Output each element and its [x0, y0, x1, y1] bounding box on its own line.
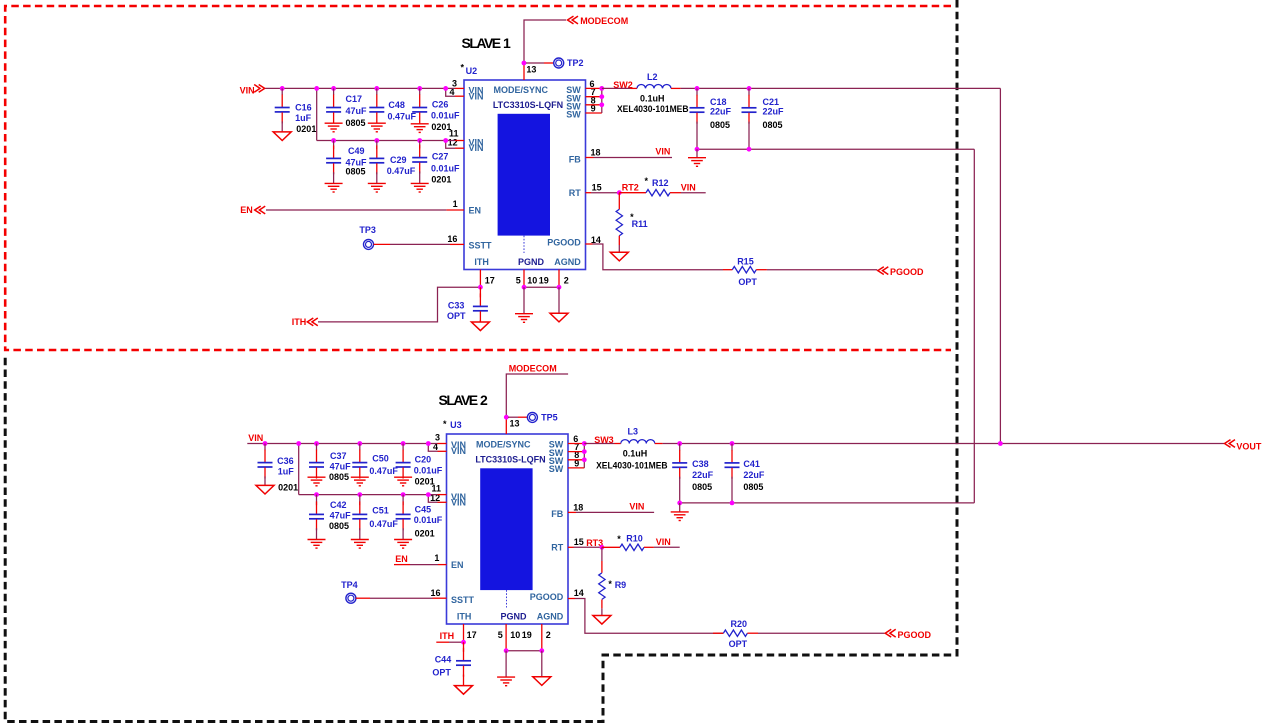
svg-text:MODE/SYNC: MODE/SYNC	[494, 85, 549, 95]
wire TP4 to U3 pin 16	[356, 597, 433, 599]
wire MODECOM (slave1)	[524, 20, 566, 63]
svg-text:TP5: TP5	[541, 413, 558, 423]
U2 pin 6 stub	[586, 87, 602, 89]
test point TP2	[554, 58, 584, 68]
svg-text:22uF: 22uF	[743, 470, 765, 480]
net label PGOOD (slave2)	[885, 629, 931, 640]
U3 pin 6 stub	[568, 443, 584, 445]
capacitor C49	[326, 141, 341, 184]
svg-text:R10: R10	[626, 533, 643, 543]
U3 pin 13 stub	[505, 417, 507, 434]
wire PGOOD (slave2)	[575, 599, 723, 634]
svg-text:C49: C49	[348, 146, 365, 156]
U3 pin 9 stub	[568, 467, 584, 469]
svg-text:2: 2	[564, 276, 569, 286]
svg-text:VIN: VIN	[469, 92, 484, 102]
svg-text:OPT: OPT	[729, 639, 748, 649]
svg-text:5: 5	[498, 630, 503, 640]
wire RT2 to R12	[619, 192, 646, 194]
label C16	[295, 102, 316, 134]
U2 pin 12 stub	[446, 141, 464, 149]
U2 pin 9 stub	[586, 112, 602, 114]
svg-text:0805: 0805	[743, 482, 763, 492]
net label PGOOD (slave1)	[878, 267, 924, 278]
ground R11 (triangle)	[610, 252, 628, 261]
capacitor C41	[725, 444, 740, 503]
svg-text:0805: 0805	[329, 521, 349, 531]
U3 pin 18 stub	[568, 511, 576, 513]
ground C27 (bars)	[411, 183, 429, 192]
svg-text:SW: SW	[566, 110, 581, 120]
net label ITH (slave2)	[440, 631, 455, 641]
resistor R12	[646, 190, 681, 196]
svg-text:16: 16	[431, 588, 441, 598]
svg-text:16: 16	[447, 234, 457, 244]
node C38 bottom junction	[677, 501, 682, 506]
svg-text:VIN: VIN	[451, 446, 466, 456]
svg-text:10: 10	[510, 630, 520, 640]
svg-text:ITH: ITH	[457, 612, 472, 622]
U3 pins 5/10/19 stub	[505, 624, 507, 651]
inductor L2	[637, 85, 681, 89]
label C33	[447, 301, 466, 322]
label C21	[763, 97, 785, 130]
svg-text:EN: EN	[451, 560, 464, 570]
node RT3 junction	[600, 545, 605, 550]
net label MODECOM (slave1)	[568, 16, 629, 26]
wire U3 PGND drop	[505, 651, 507, 677]
svg-text:0.01uF: 0.01uF	[431, 164, 460, 174]
svg-text:SW: SW	[549, 464, 564, 474]
svg-text:19: 19	[522, 630, 532, 640]
svg-text:*: *	[617, 534, 621, 544]
svg-text:C36: C36	[277, 456, 294, 466]
ground C38 (bars)	[671, 512, 689, 521]
U3 pin 14 stub	[568, 598, 575, 600]
U3 pin 15 stub	[568, 546, 574, 548]
svg-text:C27: C27	[432, 152, 449, 162]
wire EN to U3 pin 1	[394, 564, 438, 566]
capacitor C38	[672, 444, 687, 503]
svg-text:47uF: 47uF	[330, 461, 352, 471]
svg-text:VIN: VIN	[681, 183, 696, 193]
svg-text:PGOOD: PGOOD	[547, 238, 581, 248]
svg-text:0805: 0805	[710, 120, 730, 130]
svg-text:0201: 0201	[431, 175, 451, 185]
U2 pin 17 stub	[479, 270, 481, 288]
node VIN rail dots row2	[331, 138, 448, 143]
svg-text:VIN: VIN	[248, 433, 263, 443]
resistor R20	[713, 630, 758, 636]
net label ITH (slave1)	[292, 317, 318, 327]
wire SW pins vertical tie (slave2)	[583, 444, 585, 468]
svg-text:0201: 0201	[415, 477, 435, 487]
capacitor C50	[352, 444, 367, 479]
svg-text:SSTT: SSTT	[469, 240, 493, 250]
node RT2 junction	[617, 190, 622, 195]
capacitor C37	[309, 444, 324, 479]
svg-text:EN: EN	[469, 206, 482, 216]
svg-text:ITH: ITH	[474, 257, 489, 267]
U2 reference designator	[461, 63, 478, 76]
svg-text:C17: C17	[346, 94, 363, 104]
svg-text:0.47uF: 0.47uF	[369, 519, 398, 529]
wire ITH stub (slave2)	[436, 641, 463, 643]
ground C44 (triangle)	[455, 686, 473, 695]
svg-text:22uF: 22uF	[692, 470, 714, 480]
node VIN rail dots row2 (slave2)	[314, 492, 431, 497]
U3 pin numbers	[430, 419, 584, 640]
label C45	[414, 505, 443, 539]
ground U3 PGND (bars)	[497, 677, 515, 686]
node U3 AGND junction	[539, 648, 544, 653]
svg-text:C48: C48	[388, 100, 405, 110]
svg-text:VIN: VIN	[469, 143, 484, 153]
node ITH/C33 junction	[478, 285, 483, 290]
wire VIN rail row1	[265, 87, 455, 89]
U3 pin 17 stub	[463, 624, 465, 642]
wire R20 to PGOOD label	[758, 632, 885, 634]
U3 pin 1 stub	[438, 564, 447, 566]
U3 pin 3 stub	[438, 443, 447, 445]
svg-text:EN: EN	[240, 205, 253, 215]
net label VIN at R12	[681, 183, 696, 193]
svg-text:C51: C51	[372, 506, 389, 516]
svg-text:MODECOM: MODECOM	[509, 364, 557, 374]
U2 pin 7 stub	[586, 96, 602, 98]
svg-text:TP4: TP4	[341, 580, 358, 590]
svg-text:RT: RT	[569, 188, 581, 198]
wire SW3 to L3	[584, 443, 621, 445]
svg-text:0.01uF: 0.01uF	[431, 111, 460, 121]
U2 pins 5/10/19 stub	[523, 270, 525, 288]
svg-text:1uF: 1uF	[278, 467, 295, 477]
svg-text:SLAVE: SLAVE	[462, 35, 501, 51]
svg-text:17: 17	[467, 630, 477, 640]
svg-text:C29: C29	[390, 155, 407, 165]
wire U2 PGND-AGND link	[524, 286, 559, 288]
U3 pin 11 stub	[438, 494, 447, 496]
wire R10 to VIN label	[654, 546, 680, 548]
label R20	[729, 619, 748, 649]
svg-text:VIN: VIN	[451, 498, 466, 508]
ground R9 (triangle)	[593, 616, 611, 625]
label R15	[737, 257, 757, 287]
label L2	[617, 72, 689, 114]
label C29	[387, 155, 416, 176]
net label EN (slave1)	[240, 205, 265, 215]
svg-text:0805: 0805	[346, 118, 366, 128]
wire FB VIN (slave1)	[594, 157, 673, 159]
capacitor C48	[369, 88, 384, 123]
svg-text:OPT: OPT	[432, 668, 451, 678]
capacitor C16	[275, 88, 290, 131]
ground C42 (bars)	[308, 540, 326, 549]
node VIN rail dots row1	[280, 86, 448, 91]
node U2 AGND junction	[557, 285, 562, 290]
ground U2 AGND (triangle)	[550, 313, 568, 322]
svg-text:C20: C20	[415, 455, 432, 465]
label C42	[329, 500, 351, 531]
svg-text:PGOOD: PGOOD	[530, 592, 564, 602]
svg-text:C38: C38	[692, 459, 709, 469]
wire RT3 to R10	[602, 546, 620, 548]
svg-text:22uF: 22uF	[763, 106, 785, 116]
ground U2 PGND (bars)	[515, 314, 533, 323]
U2 pin 3 stub	[455, 87, 464, 89]
wire AGND drop	[558, 287, 560, 313]
svg-text:0805: 0805	[763, 120, 783, 130]
svg-text:13: 13	[526, 65, 536, 75]
svg-text:0.1uH: 0.1uH	[623, 448, 648, 458]
svg-text:C42: C42	[330, 500, 347, 510]
node C21 bottom junction	[747, 147, 752, 152]
ground C33 (triangle)	[471, 322, 489, 331]
ground C29 (bars)	[368, 183, 386, 192]
svg-text:0.01uF: 0.01uF	[414, 515, 443, 525]
svg-text:17: 17	[485, 276, 495, 286]
U3 pin 4 stub	[428, 444, 446, 452]
svg-text:TP2: TP2	[567, 58, 584, 68]
label C41	[743, 459, 765, 492]
node C18 bottom junction	[695, 147, 700, 152]
ground U3 AGND (triangle)	[533, 677, 551, 686]
capacitor C33	[473, 287, 488, 322]
U3 pin 2 stub	[541, 624, 543, 651]
ground C26 (bars)	[411, 124, 429, 133]
net label SW2	[613, 80, 633, 90]
svg-text:18: 18	[573, 502, 583, 512]
svg-text:SLAVE: SLAVE	[439, 392, 478, 408]
svg-text:0201: 0201	[296, 124, 316, 134]
svg-text:2: 2	[480, 392, 488, 408]
svg-text:PGND: PGND	[518, 257, 545, 267]
svg-text:PGND: PGND	[500, 612, 527, 622]
wire VIN rail row2 (slave2)	[299, 494, 438, 496]
label R11	[630, 212, 648, 229]
net label VIN at FB (slave1)	[655, 147, 670, 157]
U2 pin 11 stub	[455, 140, 464, 142]
svg-text:PGOOD: PGOOD	[898, 630, 932, 640]
svg-text:1: 1	[503, 35, 511, 51]
SLAVE 2 region black dashed border	[5, 0, 957, 722]
svg-text:C33: C33	[448, 301, 465, 311]
net label VIN at FB (slave2)	[629, 502, 644, 512]
node ITH/C44 junction	[461, 640, 466, 645]
svg-text:FB: FB	[569, 154, 581, 164]
label R12	[645, 176, 669, 188]
svg-text:0805: 0805	[346, 167, 366, 177]
net label SW3	[594, 435, 614, 445]
capacitor C18	[690, 88, 705, 149]
svg-text:C26: C26	[432, 100, 449, 110]
node C41 top junction	[730, 441, 735, 446]
svg-text:LTC3310S-LQFN: LTC3310S-LQFN	[493, 100, 563, 110]
label C49	[346, 146, 368, 177]
capacitor C26	[412, 88, 427, 123]
svg-text:C37: C37	[330, 451, 347, 461]
svg-text:0201: 0201	[278, 483, 298, 493]
U3 pin 12 stub	[428, 495, 446, 503]
inductor L3	[621, 440, 663, 444]
svg-text:22uF: 22uF	[710, 106, 732, 116]
svg-text:U2: U2	[466, 66, 478, 76]
U2 pin 4 stub	[446, 88, 464, 96]
test point TP5	[527, 412, 557, 422]
svg-text:LTC3310S-LQFN: LTC3310S-LQFN	[475, 454, 545, 464]
svg-text:RT2: RT2	[622, 183, 639, 193]
svg-text:18: 18	[591, 148, 601, 158]
svg-text:VIN: VIN	[629, 502, 644, 512]
svg-text:15: 15	[592, 183, 602, 193]
label C44	[432, 654, 451, 677]
net label RT2	[622, 183, 639, 193]
node VOUT interconnect junction	[998, 441, 1003, 446]
U2 pin 13 stub	[523, 63, 525, 80]
ground C51 (bars)	[351, 540, 369, 549]
ground C16 (triangle)	[273, 132, 291, 141]
label C38	[692, 459, 714, 492]
node SW2 dots	[599, 86, 604, 107]
svg-text:C41: C41	[743, 459, 760, 469]
svg-text:0.47uF: 0.47uF	[387, 166, 416, 176]
net label MODECOM (slave2)	[509, 364, 557, 374]
U3 reference designator	[443, 419, 462, 430]
capacitor C42	[309, 495, 324, 540]
U3 pin 7 stub	[568, 451, 584, 453]
svg-text:10: 10	[527, 276, 537, 286]
net label RT3	[586, 538, 603, 548]
U2 pin numbers	[447, 65, 601, 286]
ground C17 (bars)	[325, 123, 343, 132]
net label VOUT	[1225, 440, 1262, 452]
svg-text:47uF: 47uF	[330, 510, 352, 520]
svg-text:AGND: AGND	[537, 612, 564, 622]
capacitor C51	[352, 495, 367, 540]
label C51	[369, 506, 398, 529]
svg-text:R11: R11	[632, 219, 648, 229]
ground C49 (bars)	[325, 183, 343, 192]
node C18 top junction	[695, 86, 700, 91]
wire C18/C21 ground rail	[697, 148, 974, 150]
svg-text:R20: R20	[731, 619, 748, 629]
svg-text:*: *	[608, 579, 612, 589]
wire MODECOM (slave2)	[506, 374, 568, 417]
label C26	[431, 100, 460, 132]
U3 pin 16 stub	[433, 597, 447, 599]
label C50	[369, 454, 398, 477]
svg-text:AGND: AGND	[554, 257, 581, 267]
wire SW pins vertical tie	[601, 88, 603, 113]
svg-text:3: 3	[435, 432, 440, 442]
svg-text:PGOOD: PGOOD	[890, 267, 924, 277]
wire TP3 to U2 pin 16	[374, 243, 451, 245]
wire VOUT interconnect vertical	[999, 88, 1001, 443]
capacitor C20	[396, 444, 411, 479]
svg-text:L2: L2	[647, 72, 658, 82]
svg-text:VOUT: VOUT	[1236, 442, 1262, 452]
wire R12 to VIN label	[681, 192, 706, 194]
ground C37 (bars)	[308, 477, 326, 486]
resistor R11	[616, 193, 622, 253]
wire GND interconnect vertical	[973, 149, 975, 503]
svg-text:C16: C16	[295, 102, 312, 112]
node U3 PGND junction	[504, 648, 509, 653]
label C17	[346, 94, 368, 128]
U2 pin 15 stub	[586, 192, 592, 194]
U2 pin 14 stub	[586, 243, 593, 245]
svg-text:R9: R9	[615, 580, 627, 590]
svg-text:C45: C45	[415, 505, 432, 515]
title SLAVE 1	[462, 35, 512, 51]
IC U3 LTC3310S-LQFN body	[447, 434, 569, 624]
label L3	[596, 427, 668, 471]
SLAVE 1 region red dashed border	[5, 6, 951, 350]
capacitor C45	[396, 495, 411, 540]
wire R15 to PGOOD label	[767, 269, 877, 271]
node SW3 dots	[582, 441, 587, 462]
svg-text:FB: FB	[551, 509, 563, 519]
svg-text:1uF: 1uF	[295, 113, 312, 123]
wire U3 PGND-AGND link	[506, 650, 542, 652]
wire PGND drop	[523, 287, 525, 314]
wire VIN rail row1-to-row2 (slave2)	[298, 444, 300, 495]
label C37	[329, 451, 351, 482]
wire C38 gnd drop	[679, 503, 681, 512]
wire VIN rail row1-to-row2	[316, 88, 318, 140]
svg-text:C50: C50	[372, 454, 389, 464]
capacitor C44	[456, 642, 471, 685]
svg-text:OPT: OPT	[447, 311, 466, 321]
svg-text:13: 13	[510, 419, 520, 429]
svg-text:TP3: TP3	[359, 225, 376, 235]
capacitor C36	[258, 444, 273, 486]
svg-text:14: 14	[574, 588, 584, 598]
node U2 PGND junction	[522, 285, 527, 290]
resistor R9	[599, 547, 605, 615]
node C41 bottom junction	[730, 501, 735, 506]
svg-text:15: 15	[574, 537, 584, 547]
wire EN to U2 pin 1	[266, 209, 446, 211]
resistor R10	[620, 544, 654, 550]
svg-text:VIN: VIN	[240, 85, 255, 95]
wire FB VIN (slave2)	[576, 511, 654, 513]
wire U3 AGND drop	[541, 651, 543, 677]
wire VIN rail row2	[317, 140, 455, 142]
U2 pin 18 stub	[586, 157, 594, 159]
label C27	[431, 152, 460, 185]
U3 pin 8 stub	[568, 459, 584, 461]
IC U2 LTC3310S-LQFN body	[464, 80, 586, 270]
ground C20 (bars)	[394, 477, 412, 486]
wire TP5 link	[508, 416, 527, 418]
svg-text:0.1uH: 0.1uH	[640, 94, 665, 104]
svg-text:XEL4030-101MEB: XEL4030-101MEB	[596, 461, 668, 471]
label C20	[414, 455, 443, 487]
svg-text:XEL4030-101MEB: XEL4030-101MEB	[617, 104, 689, 114]
wire SW2 output rail	[681, 87, 1001, 89]
label C36	[277, 456, 298, 492]
ground C18 (bars)	[688, 158, 706, 167]
resistor R15	[723, 267, 767, 273]
node U2 pin13 junction	[522, 61, 527, 66]
capacitor C29	[369, 141, 384, 184]
wire RT to RT3 node	[574, 546, 602, 548]
svg-text:RT: RT	[551, 542, 563, 552]
node VIN rail dots row1 (slave2)	[263, 441, 431, 446]
label R10	[617, 533, 643, 543]
svg-text:ITH: ITH	[292, 317, 307, 327]
